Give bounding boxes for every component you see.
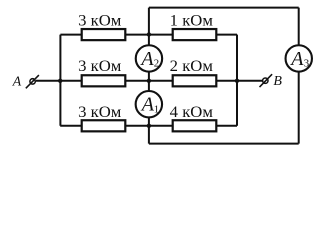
svg-text:3 кОм: 3 кОм — [78, 10, 121, 29]
svg-text:A: A — [140, 94, 155, 116]
svg-text:1 кОм: 1 кОм — [170, 10, 213, 29]
svg-text:3 кОм: 3 кОм — [78, 102, 121, 121]
svg-text:B: B — [273, 74, 282, 89]
svg-text:2 кОм: 2 кОм — [170, 56, 213, 75]
resistor 3 кОм top-left — [82, 29, 126, 40]
svg-text:1: 1 — [154, 103, 159, 115]
wire bottom horizontal — [149, 143, 299, 145]
wire middle bus vertical — [148, 8, 150, 144]
resistor 4 кОм bottom-right — [173, 120, 217, 131]
wire left bus vertical — [59, 35, 61, 126]
wire right bus vertical — [236, 35, 238, 126]
svg-text:A: A — [289, 48, 304, 70]
resistor 1 кОм top-right — [173, 29, 217, 40]
svg-text:A: A — [139, 48, 154, 70]
wire A3 branch vertical — [298, 8, 300, 144]
wire row 3 horizontal — [60, 125, 237, 127]
ammeter A1 — [136, 91, 162, 117]
svg-text:A: A — [12, 73, 22, 88]
svg-text:2: 2 — [154, 58, 159, 70]
resistor 3 кОм bottom-left — [82, 120, 126, 131]
svg-text:3: 3 — [304, 58, 309, 70]
node top of middle bus — [147, 32, 151, 36]
terminal B symbol (slashed circle) — [260, 74, 273, 87]
wire row 2 horizontal (terminal A to terminal B) — [36, 80, 262, 82]
wire top horizontal — [149, 7, 299, 9]
node at terminal A junction — [58, 79, 62, 83]
resistor 3 кОм middle-left — [82, 75, 126, 86]
terminal A symbol (slashed circle) — [26, 75, 39, 88]
node bottom of middle bus — [147, 124, 151, 128]
resistor 2 кОм middle-right — [173, 75, 217, 86]
svg-text:4 кОм: 4 кОм — [170, 102, 213, 121]
node at terminal B junction — [235, 79, 239, 83]
ammeter A2 — [136, 45, 162, 71]
svg-text:3 кОм: 3 кОм — [78, 56, 121, 75]
ammeter A3 — [286, 45, 312, 71]
node middle bus row 2 — [147, 79, 151, 83]
wire row 1 horizontal — [60, 34, 237, 36]
